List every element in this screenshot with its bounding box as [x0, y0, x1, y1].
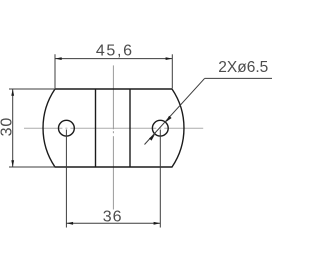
dimension 30 arrowhead bottom [11, 160, 14, 167]
dimension 30 extension lines [9, 89, 55, 167]
dimension 45,6 dimension line [55, 58, 172, 60]
svg-text:36: 36 [103, 208, 123, 225]
inner edge line right [129, 89, 131, 167]
dimension 30 arrowhead top [11, 89, 14, 96]
dimension 30 dimension line [12, 89, 14, 167]
dimension 36 arrowhead left [66, 222, 73, 225]
leader line horizontal landing [205, 77, 272, 79]
leader line diagonal (through right hole) [145, 78, 205, 144]
dimension 36 arrowhead right [154, 222, 161, 225]
dimension 45,6 arrowhead left [55, 57, 62, 60]
inner edge line left [95, 89, 97, 167]
svg-text:30: 30 [0, 117, 15, 137]
vertical centerline (dash-dot, part axis) [112, 65, 114, 209]
dimension 36 extension lines (from hole centers) [66, 130, 160, 228]
svg-text:2Xø6.5: 2Xø6.5 [218, 59, 268, 76]
part outline (plate with arc ends) [43, 89, 184, 167]
horizontal centerline (dash-dot through both holes) [24, 127, 203, 129]
hole left (Ø6.5) [59, 120, 75, 136]
dimension 45,6 extension lines [55, 54, 172, 88]
hole right (Ø6.5) [152, 120, 168, 136]
svg-text:45,6: 45,6 [96, 42, 134, 59]
leader arrowhead lower (points at hole edge) [149, 134, 155, 141]
dimension 36 dimension line [66, 222, 160, 224]
leader arrowhead upper (points at hole edge) [166, 116, 172, 123]
dimension 45,6 arrowhead right [166, 57, 173, 60]
